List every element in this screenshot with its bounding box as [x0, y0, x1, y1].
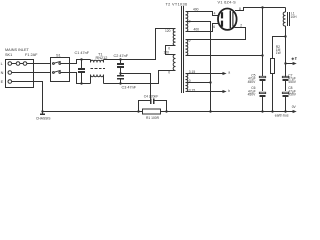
wire HT+ output: [284, 37, 296, 78]
capacitor C7: [282, 73, 297, 91]
resistor R2: [271, 45, 282, 111]
svg-text:earth bus: earth bus: [275, 113, 289, 117]
transformer T2: [166, 3, 188, 93]
node C6 on bus: [261, 110, 263, 112]
node C8 on bus: [284, 110, 286, 112]
capacitor C3: [117, 72, 137, 89]
wire to bleeder R2: [273, 37, 286, 59]
svg-text:C3 47nF: C3 47nF: [122, 86, 137, 90]
wire cathode rail down to C5: [262, 8, 264, 77]
node cathode rail junction: [261, 6, 263, 8]
wire heater top to V1 pin 2: [186, 28, 246, 40]
resistor R1: [143, 109, 161, 120]
svg-text:450V: 450V: [248, 80, 257, 84]
node C4 left: [137, 110, 139, 112]
svg-text:10H: 10H: [291, 15, 298, 19]
capacitor C2: [114, 54, 129, 73]
svg-text:S1: S1: [56, 54, 61, 58]
wire HT bottom to anode 2: [186, 24, 220, 32]
svg-text:R1 100R: R1 100R: [146, 116, 160, 120]
node R2 on bus: [271, 110, 273, 112]
svg-text:E: E: [1, 80, 4, 84]
svg-text:MAINS INLET: MAINS INLET: [5, 48, 30, 52]
T2 primary winding 1: [165, 29, 176, 51]
svg-text:8: 8: [239, 7, 241, 11]
svg-text:F1 2AF: F1 2AF: [25, 53, 38, 57]
capacitor C4: [139, 94, 167, 111]
svg-text:400: 400: [193, 7, 199, 11]
node choke output: [284, 35, 286, 37]
wire top rail T1 to C2 and primary: [91, 29, 176, 63]
T2 heater winding 6V: [186, 39, 191, 56]
svg-text:T2 VT1036: T2 VT1036: [166, 3, 188, 7]
svg-text:L: L: [1, 62, 3, 66]
node C4 right: [165, 110, 167, 112]
wire C2/C3 midpoint to earth block: [121, 74, 151, 101]
capacitor C5: [248, 73, 266, 91]
svg-text:C2 47nF: C2 47nF: [114, 54, 129, 58]
svg-text:C1 47nF: C1 47nF: [75, 51, 90, 55]
wire cathode to top rail: [235, 8, 286, 11]
capacitor C1: [75, 51, 90, 85]
choke T1: [91, 52, 108, 76]
choke L1: [283, 8, 297, 37]
svg-text:V1 6Z4-S: V1 6Z4-S: [218, 1, 237, 5]
T2 HT secondary 400-0-400: [186, 7, 200, 31]
svg-text:120: 120: [165, 29, 171, 33]
svg-text:4: 4: [214, 11, 216, 15]
wire LT top to heater feed a: [186, 71, 231, 76]
svg-text:120: 120: [164, 51, 170, 55]
earth bus wire right segment: [161, 111, 294, 113]
wire LT bottom to heater feed b: [186, 89, 231, 93]
earth bus wire left segment: [43, 111, 143, 113]
wire N row to S1: [12, 72, 51, 74]
wire HT centre tap to earth bus: [186, 22, 211, 112]
svg-text:SK1: SK1: [5, 53, 12, 57]
svg-text:C4 220nF: C4 220nF: [144, 94, 158, 98]
svg-text:0: 0: [168, 71, 170, 75]
svg-text:450V: 450V: [288, 93, 297, 97]
fuse F1: [12, 53, 39, 66]
rectifier valve V1: [218, 1, 237, 30]
wire L row to S1: [27, 63, 51, 65]
svg-text:6: 6: [213, 25, 215, 29]
wire E row to chassis: [12, 82, 43, 112]
wire heater bottom to cathode rail: [186, 55, 263, 57]
svg-text:N: N: [1, 71, 4, 75]
T2 primary winding 2: [164, 51, 176, 75]
0V output arrow: [292, 105, 297, 113]
wire HT top to anode 1: [186, 12, 220, 16]
svg-text:a: a: [228, 71, 230, 75]
svg-text:b: b: [228, 89, 230, 93]
T2 LT winding 3.15-0-3.15: [186, 70, 196, 92]
svg-text:CHASSIS: CHASSIS: [36, 117, 51, 121]
T2 primary series jumper: [166, 46, 176, 55]
wire S1 to filter top rail: [61, 60, 91, 64]
capacitor C8: [282, 86, 297, 111]
svg-text:450V: 450V: [288, 80, 297, 84]
svg-text:0V: 0V: [292, 105, 297, 109]
svg-text:1W: 1W: [276, 51, 282, 55]
switch S1: [51, 54, 70, 82]
svg-text:450V: 450V: [248, 93, 257, 97]
svg-text:2: 2: [240, 23, 242, 27]
node HT CT on bus: [209, 110, 211, 112]
ground CHASSIS: [36, 110, 51, 120]
wire LT centre tap to earth bus: [186, 81, 212, 83]
wire bottom rail T1 to C3 and primary: [91, 71, 176, 84]
capacitor C6: [248, 86, 266, 111]
connector SK1: [5, 48, 34, 88]
wire S1 to filter bottom rail: [61, 73, 91, 84]
